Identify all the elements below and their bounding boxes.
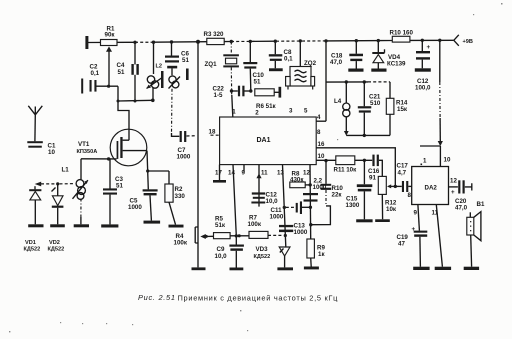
- svg-text:47,0: 47,0: [455, 205, 468, 212]
- svg-text:47,0: 47,0: [330, 59, 343, 66]
- svg-text:VD1: VD1: [25, 240, 36, 246]
- svg-text:C17: C17: [397, 163, 409, 170]
- svg-text:10к: 10к: [386, 206, 397, 213]
- svg-text:90к: 90к: [105, 32, 116, 39]
- svg-text:330: 330: [175, 193, 186, 200]
- svg-text:4: 4: [317, 114, 321, 121]
- svg-text:47: 47: [398, 241, 405, 248]
- svg-text:+: +: [451, 189, 455, 196]
- svg-text:15к: 15к: [397, 106, 408, 113]
- svg-text:8: 8: [317, 129, 321, 136]
- svg-text:1300: 1300: [346, 202, 360, 209]
- svg-text:1-5: 1-5: [214, 92, 224, 99]
- svg-text:16: 16: [318, 141, 325, 148]
- svg-text:R3 320: R3 320: [204, 31, 225, 38]
- svg-text:L2: L2: [156, 64, 163, 70]
- svg-text:10,0: 10,0: [215, 253, 228, 260]
- svg-text:4,7: 4,7: [398, 170, 407, 177]
- svg-text:+: +: [427, 44, 431, 51]
- svg-text:12: 12: [450, 178, 457, 185]
- svg-text:ZQ1: ZQ1: [205, 61, 218, 68]
- svg-text:КД522: КД522: [254, 254, 271, 260]
- svg-text:10: 10: [318, 153, 325, 160]
- svg-text:2: 2: [255, 110, 259, 117]
- svg-text:100к: 100к: [248, 221, 262, 228]
- svg-text:51: 51: [118, 69, 125, 76]
- svg-text:L1: L1: [62, 167, 70, 174]
- svg-text:R6 51к: R6 51к: [256, 103, 277, 110]
- svg-text:100,0: 100,0: [415, 85, 431, 92]
- svg-text:11: 11: [261, 170, 268, 177]
- svg-text:8: 8: [408, 192, 412, 199]
- svg-text:17: 17: [215, 170, 222, 177]
- svg-text:51: 51: [116, 183, 123, 190]
- svg-text:КД522: КД522: [24, 247, 41, 253]
- svg-text:9: 9: [414, 210, 418, 217]
- svg-text:430к: 430к: [290, 177, 304, 184]
- svg-text:1: 1: [423, 158, 427, 165]
- svg-text:B1: B1: [477, 201, 485, 208]
- svg-text:91: 91: [369, 175, 376, 182]
- svg-text:51: 51: [254, 79, 261, 86]
- svg-text:КД522: КД522: [48, 247, 65, 253]
- svg-text:10: 10: [48, 149, 55, 156]
- svg-text:18: 18: [209, 129, 216, 136]
- svg-text:Рис. 2.51: Рис. 2.51: [138, 293, 176, 302]
- svg-text:DA1: DA1: [257, 137, 271, 144]
- svg-text:1000: 1000: [294, 229, 308, 236]
- svg-text:100к: 100к: [174, 240, 188, 247]
- svg-text:0,1: 0,1: [91, 70, 100, 77]
- svg-text:R11 10к: R11 10к: [334, 167, 358, 174]
- svg-text:+9B: +9B: [463, 39, 473, 45]
- svg-text:1000: 1000: [313, 184, 327, 191]
- svg-text:DA2: DA2: [425, 185, 438, 192]
- svg-text:1к: 1к: [318, 251, 325, 258]
- svg-text:10: 10: [444, 157, 451, 164]
- svg-text:VT1: VT1: [78, 141, 90, 148]
- svg-text:22к: 22к: [332, 192, 343, 199]
- svg-text:3: 3: [289, 108, 293, 115]
- svg-text:0,1: 0,1: [284, 55, 293, 62]
- svg-text:1000: 1000: [128, 204, 142, 211]
- svg-text:VD2: VD2: [49, 240, 60, 246]
- svg-text:VD3: VD3: [256, 246, 269, 253]
- svg-text:L4: L4: [334, 98, 342, 105]
- svg-text:14: 14: [228, 170, 235, 177]
- svg-text:R10 160: R10 160: [390, 30, 414, 37]
- svg-text:10,0: 10,0: [266, 198, 279, 205]
- svg-text:КС139: КС139: [387, 60, 406, 67]
- svg-text:12: 12: [303, 170, 310, 177]
- svg-text:КП350А: КП350А: [77, 149, 98, 155]
- svg-text:ZQ2: ZQ2: [304, 60, 317, 67]
- svg-text:Приемник с девиацией частоты 2: Приемник с девиацией частоты 2,5 кГц: [178, 294, 339, 303]
- svg-text:51к: 51к: [215, 222, 226, 229]
- svg-text:5: 5: [304, 108, 308, 115]
- svg-text:510: 510: [370, 100, 381, 107]
- svg-text:1000: 1000: [177, 154, 191, 161]
- svg-text:51: 51: [182, 57, 189, 64]
- svg-text:1000: 1000: [270, 214, 284, 221]
- svg-text:1: 1: [232, 109, 236, 116]
